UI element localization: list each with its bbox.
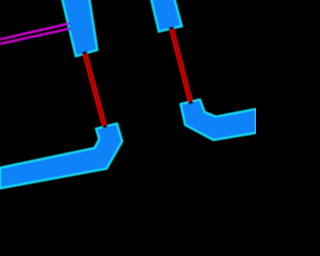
track T3 (magenta inner-layer, outline mode) upper edge xyxy=(0,24,69,40)
track T1 (F.Cu, outline mode): dark core xyxy=(85,54,105,126)
junction notch at pad P1 / track T1 xyxy=(82,51,88,57)
wide copper trace (bottom-left elbow, B.Cu) xyxy=(0,124,122,189)
wide copper trace (bottom-right elbow, B.Cu) xyxy=(181,100,256,140)
junction dot at pad P1 / track T3 upper xyxy=(67,22,70,25)
track T2 outline edges xyxy=(170,30,189,102)
junction dot at pad P1 / track T3 lower xyxy=(68,27,71,30)
track T3 lower edge xyxy=(0,29,70,44)
junction notch at elbow cap / track T2 xyxy=(188,100,193,105)
board background xyxy=(0,0,256,256)
pad P1 (top-left SMD pad) xyxy=(62,0,98,56)
track T2 (F.Cu, outline mode): dark core xyxy=(172,29,191,101)
junction notch at pad P2 / track T2 xyxy=(169,26,175,31)
pad P2 (top-right SMD pad) xyxy=(151,0,182,31)
track T1 outline edges xyxy=(84,54,104,126)
junction notch at elbow cap / track T1 xyxy=(102,123,108,128)
